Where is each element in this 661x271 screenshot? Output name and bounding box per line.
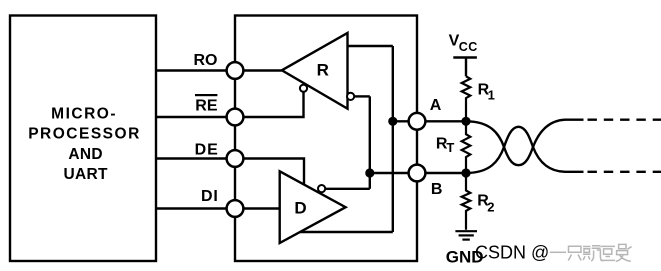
svg-text:A: A [430, 97, 442, 114]
svg-text:RE: RE [195, 98, 218, 115]
svg-text:D: D [294, 199, 306, 218]
svg-text:DI: DI [201, 188, 219, 205]
svg-text:RO: RO [194, 52, 218, 69]
svg-text:R: R [317, 61, 329, 80]
svg-text:UART: UART [63, 166, 107, 183]
svg-text:CC: CC [459, 40, 478, 54]
svg-text:DE: DE [195, 141, 219, 158]
svg-text:AND: AND [68, 146, 102, 163]
svg-text:T: T [446, 140, 454, 155]
svg-text:B: B [431, 181, 443, 198]
svg-text:CSDN @: CSDN @ [475, 242, 549, 262]
svg-text:1: 1 [488, 87, 495, 102]
svg-text:MICRO-: MICRO- [51, 105, 117, 122]
svg-text:2: 2 [487, 199, 494, 214]
svg-text:PROCESSOR: PROCESSOR [28, 125, 141, 142]
